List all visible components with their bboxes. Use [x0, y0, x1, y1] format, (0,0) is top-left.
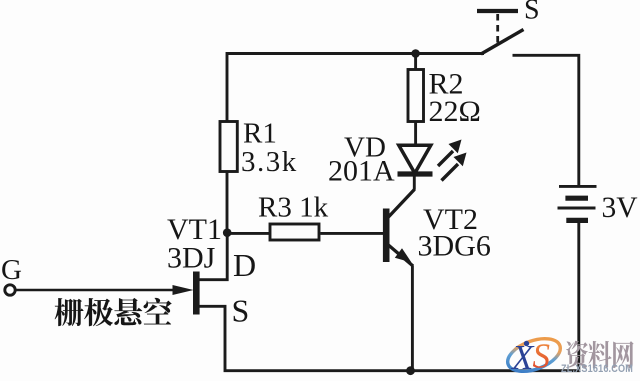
svg-text:3.3k: 3.3k [241, 146, 298, 178]
svg-text:D: D [233, 247, 256, 283]
wire switch to right rail [513, 55, 579, 186]
resistor R3 [270, 224, 319, 240]
wire top horizontal bus [227, 54, 484, 122]
node junction top (R2 tap) [411, 49, 420, 58]
svg-text:S: S [524, 0, 540, 26]
wire R3 to base [321, 232, 384, 235]
svg-text:S: S [533, 337, 551, 376]
wire R1 to node A [226, 172, 229, 233]
resistor R1 [220, 122, 237, 172]
transistor VT1 (FET) channel bar [193, 272, 200, 315]
LED VD triangle [399, 145, 431, 173]
svg-text:X: X [510, 338, 535, 377]
svg-text:R1: R1 [243, 118, 277, 150]
svg-text:R3 1k: R3 1k [258, 192, 329, 224]
svg-text:22Ω: 22Ω [429, 95, 481, 128]
resistor R2 [408, 70, 424, 122]
wire node A to R3 [227, 232, 270, 235]
svg-text:3DG6: 3DG6 [418, 230, 491, 263]
wire emitter to bottom junction [411, 266, 414, 371]
svg-text:3V: 3V [602, 192, 638, 224]
wire R2 to LED [414, 122, 417, 146]
watermark logo ellipse [503, 332, 564, 377]
svg-text:ZL.XS1616.COM: ZL.XS1616.COM [561, 363, 633, 375]
svg-text:G: G [1, 254, 22, 286]
battery GB 3V [558, 186, 597, 220]
LED cathode bar [398, 171, 433, 176]
wire top node to R2 [414, 54, 417, 70]
label 栅极悬空 (gate floating) [55, 298, 172, 326]
switch S [477, 11, 524, 54]
svg-text:S: S [232, 293, 250, 329]
wire LED to collector [413, 176, 416, 190]
svg-text:201A: 201A [328, 155, 395, 188]
watermark 资料网 [566, 341, 634, 368]
terminal G circle [5, 285, 15, 295]
wire node A down to drain [198, 233, 227, 280]
svg-text:3DJ: 3DJ [167, 242, 216, 275]
VT2 emitter lead with arrow [388, 244, 414, 266]
wire source to bottom bus [198, 221, 579, 371]
LED light arrows [438, 140, 467, 181]
node junction bottom (emitter) [406, 366, 415, 375]
transistor VT2 base bar [383, 209, 390, 263]
VT2 collector lead [388, 189, 415, 218]
node A junction (R1/R3/drain) [223, 228, 232, 237]
wire gate with arrow [15, 289, 176, 292]
